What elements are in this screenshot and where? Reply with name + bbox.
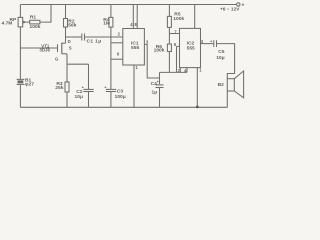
svg-text:10μ: 10μ: [216, 55, 224, 61]
svg-text:B2: B2: [218, 82, 225, 88]
svg-text:G: G: [55, 56, 59, 61]
svg-text:C3: C3: [117, 88, 124, 94]
svg-text:+: +: [242, 3, 245, 9]
svg-text:1μ: 1μ: [152, 89, 158, 95]
svg-text:4: 4: [130, 22, 133, 27]
svg-text:R1: R1: [30, 15, 37, 21]
svg-text:1: 1: [136, 65, 139, 70]
svg-text:C1 1μ: C1 1μ: [87, 39, 102, 45]
svg-text:100μ: 100μ: [115, 94, 126, 100]
svg-text:C5: C5: [218, 49, 225, 55]
svg-text:+: +: [210, 39, 213, 44]
svg-text:6: 6: [117, 52, 120, 57]
svg-text:555: 555: [187, 45, 195, 51]
svg-text:56k: 56k: [68, 23, 76, 29]
svg-text:6: 6: [174, 42, 177, 47]
svg-text:100k: 100k: [154, 47, 165, 53]
svg-text:555: 555: [131, 45, 139, 51]
svg-text:3: 3: [146, 40, 149, 45]
svg-text:100k: 100k: [30, 24, 41, 30]
svg-text:4.7M: 4.7M: [2, 20, 13, 26]
svg-text:2: 2: [118, 32, 121, 37]
svg-text:D: D: [68, 39, 71, 44]
svg-text:φ27: φ27: [25, 82, 34, 88]
svg-text:S: S: [69, 46, 72, 51]
svg-text:1: 1: [199, 67, 202, 72]
svg-text:10μ: 10μ: [75, 94, 83, 100]
svg-text:1M: 1M: [103, 21, 110, 27]
svg-text:25k: 25k: [55, 85, 63, 91]
svg-text:+6 ~ 12V: +6 ~ 12V: [220, 7, 240, 13]
svg-text:3DJ6: 3DJ6: [39, 48, 50, 53]
svg-text:100k: 100k: [173, 16, 184, 22]
